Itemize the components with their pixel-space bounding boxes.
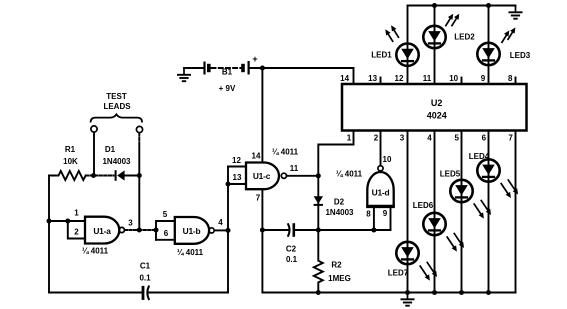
NAND gate U1-b — [175, 217, 209, 244]
svg-text:1N4003: 1N4003 — [102, 157, 131, 166]
svg-text:10K: 10K — [63, 157, 78, 166]
wire bottom left rail — [49, 292, 142, 294]
svg-text:R1: R1 — [65, 145, 76, 154]
svg-text:¼ 4011: ¼ 4011 — [82, 247, 109, 256]
svg-text:10: 10 — [383, 155, 392, 164]
wire input tie bracket U1-b — [156, 221, 175, 240]
wire pin3 column with LED7 — [407, 131, 409, 293]
wire pin11 column with LED2 — [434, 6, 436, 85]
svg-text:9: 9 — [383, 209, 388, 218]
svg-text:13: 13 — [233, 173, 242, 182]
wire input tie bracket U1-a pin 2 — [68, 221, 85, 239]
brace under TEST LEADS — [91, 114, 143, 122]
node junction input tie U1-a — [65, 219, 70, 224]
wire battery + to rail — [250, 67, 354, 69]
node junction U1-d pin 8 — [371, 228, 376, 233]
svg-text:+ 9V: + 9V — [219, 84, 236, 93]
wire left test lead down — [93, 132, 95, 175]
svg-text:U1-b: U1-b — [183, 226, 201, 236]
wire left rail vertical — [48, 176, 50, 293]
svg-text:+: + — [252, 54, 257, 64]
ground top right — [509, 6, 523, 19]
svg-text:12: 12 — [232, 156, 241, 165]
LED6 — [423, 213, 445, 235]
LED4 — [477, 159, 499, 181]
svg-text:TEST: TEST — [106, 92, 127, 101]
node junction rail LED3 — [486, 3, 491, 8]
svg-text:¼ 4011: ¼ 4011 — [272, 148, 299, 157]
node junction LED7 ground — [405, 290, 410, 295]
node junction pin 13 tie — [226, 182, 231, 187]
wire U1-c pin 7 down — [261, 189, 263, 292]
svg-text:11: 11 — [290, 164, 299, 173]
svg-text:4: 4 — [218, 218, 223, 227]
node junction left test lead — [91, 173, 96, 178]
wire vertical U1-b output to U1-c inputs and bottom rail — [227, 167, 229, 293]
svg-text:C1: C1 — [140, 262, 151, 271]
svg-text:8: 8 — [508, 74, 513, 83]
ground at LED7 — [401, 293, 415, 306]
wire pin12 column with LED1 — [407, 6, 409, 85]
svg-text:D2: D2 — [334, 198, 345, 207]
LED2 — [423, 26, 445, 48]
svg-text:14: 14 — [252, 152, 261, 161]
node junction to U1-a input — [47, 219, 52, 224]
wire bottom right rail — [262, 292, 515, 294]
svg-text:LED7: LED7 — [388, 269, 409, 278]
svg-text:14: 14 — [340, 74, 349, 83]
LED7 — [396, 242, 418, 264]
wire to U1-a pin 1 — [49, 220, 85, 222]
svg-text:6: 6 — [482, 134, 487, 143]
svg-text:1MEG: 1MEG — [328, 274, 351, 283]
svg-text:R2: R2 — [331, 261, 342, 270]
node junction battery/U1-c supply — [260, 66, 265, 71]
LED1 — [396, 44, 418, 66]
test probe left terminal — [91, 126, 97, 132]
node junction U1-b output — [226, 228, 231, 233]
node junction output U1-a / test lead — [137, 228, 142, 233]
svg-text:0.1: 0.1 — [139, 274, 151, 283]
wire right test lead down (dashed then solid) — [138, 133, 140, 147]
svg-text:LED3: LED3 — [510, 51, 531, 60]
wire U1-b output — [214, 229, 228, 231]
svg-text:1N4003: 1N4003 — [325, 208, 354, 217]
test probe right terminal — [136, 126, 142, 132]
svg-text:U1-c: U1-c — [253, 171, 271, 181]
svg-text:11: 11 — [423, 74, 432, 83]
svg-text:10: 10 — [449, 74, 458, 83]
svg-text:5: 5 — [163, 210, 168, 219]
wire U1-a output (dashed) — [125, 229, 156, 231]
NAND gate U1-a — [85, 217, 119, 244]
svg-text:¼ 4011: ¼ 4011 — [336, 170, 363, 179]
svg-text:13: 13 — [368, 74, 377, 83]
NAND gate U1-c — [246, 163, 279, 190]
svg-text:3: 3 — [400, 134, 405, 143]
wire U1-c pin 14 to +9V rail — [261, 68, 263, 163]
wire U1-c output to junction — [287, 175, 319, 177]
wire R1 to D1 (dashed) — [86, 175, 114, 177]
svg-text:D1: D1 — [105, 145, 116, 154]
svg-text:0.1: 0.1 — [286, 255, 298, 264]
wire U1-c pin 13 — [228, 183, 246, 185]
wire U1-d pin 10 to U2 pin 2 — [380, 131, 382, 166]
wire pin4 column with LED6 — [434, 131, 436, 293]
svg-text:LED2: LED2 — [454, 33, 475, 42]
ground at battery — [177, 68, 191, 81]
svg-text:U1-a: U1-a — [93, 226, 111, 236]
wire U1-d input pins down to C2 net — [373, 207, 375, 230]
svg-text:5: 5 — [454, 134, 459, 143]
svg-text:C2: C2 — [286, 245, 297, 254]
wire pin5 column with LED5 — [461, 131, 463, 293]
node junction D2/C2/R2 — [316, 228, 321, 233]
NAND gate U1-d — [367, 172, 393, 207]
svg-text:2: 2 — [74, 228, 79, 237]
svg-text:6: 6 — [164, 229, 169, 238]
node junction rail LED2 — [432, 3, 437, 8]
svg-text:9: 9 — [481, 74, 486, 83]
svg-text:4024: 4024 — [427, 111, 447, 121]
LED3 — [477, 43, 499, 65]
node junction U1-b input — [154, 228, 159, 233]
svg-text:7: 7 — [508, 134, 513, 143]
node junction R2 bottom — [316, 290, 321, 295]
node junction C2 left / U1-c pin7 — [260, 228, 265, 233]
svg-text:U2: U2 — [431, 98, 443, 108]
svg-text:2: 2 — [374, 134, 379, 143]
top LED supply rail — [408, 5, 516, 7]
wire pin9 column with LED3 — [488, 6, 490, 85]
LED5 — [450, 180, 472, 202]
svg-text:LED5: LED5 — [440, 170, 461, 179]
svg-text:LED1: LED1 — [371, 51, 392, 60]
wire +9V down to U2 pin 14 — [353, 68, 355, 84]
svg-text:LEADS: LEADS — [103, 102, 131, 111]
wire U2 pin 7 down — [515, 131, 517, 293]
wire pin6 column with LED4 — [488, 131, 490, 293]
svg-text:7: 7 — [256, 194, 261, 203]
svg-text:LED4: LED4 — [469, 152, 490, 161]
svg-text:3: 3 — [128, 219, 133, 228]
svg-text:1: 1 — [347, 134, 352, 143]
svg-text:U1-d: U1-d — [372, 188, 390, 198]
svg-text:12: 12 — [395, 74, 404, 83]
svg-text:1: 1 — [74, 209, 79, 218]
node junction right test lead — [137, 173, 142, 178]
node junction pin11/D2/pin1 — [316, 173, 321, 178]
svg-text:8: 8 — [366, 209, 371, 218]
wire U1-c pin 12 — [228, 166, 246, 168]
IC U2 4024 — [342, 84, 527, 131]
svg-text:4: 4 — [427, 134, 432, 143]
svg-text:¼ 4011: ¼ 4011 — [177, 248, 204, 257]
wire U2 pin 1 jog to U1-c output node — [318, 131, 353, 176]
svg-text:LED6: LED6 — [413, 201, 434, 210]
